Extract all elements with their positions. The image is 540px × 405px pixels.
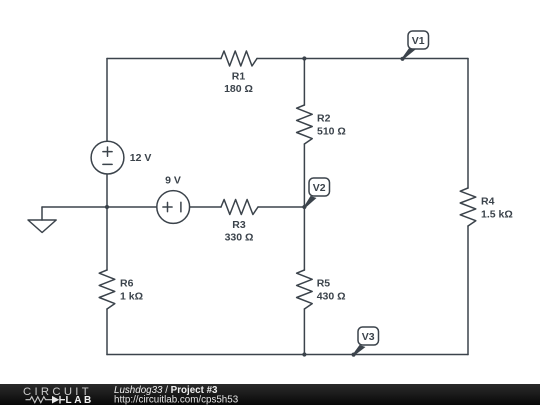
wire ground branch horizontal <box>42 206 107 208</box>
wire top (node V1 net) <box>107 58 221 60</box>
svg-text:R4: R4 <box>481 196 495 208</box>
junction dot bottom (R5 branch) <box>302 352 306 356</box>
svg-text:510 Ω: 510 Ω <box>317 125 346 137</box>
node V3 flag tail <box>353 345 366 356</box>
wire R5 to bottom wire <box>303 309 305 355</box>
wire middle vertical top to R2 <box>303 59 305 106</box>
resistor R3 body <box>221 200 258 215</box>
svg-text:R1: R1 <box>232 71 246 83</box>
svg-text:1 kΩ: 1 kΩ <box>120 290 143 302</box>
voltage source 9V circle <box>157 191 190 224</box>
wire left vertical above 12V source <box>106 59 108 142</box>
svg-text:9 V: 9 V <box>165 175 181 187</box>
node V1 flag tail <box>402 48 416 60</box>
wire left vertical below 12V source <box>106 174 108 207</box>
svg-text:12 V: 12 V <box>130 152 152 164</box>
logo resistor zigzag <box>26 397 53 403</box>
wire R4 to bottom wire <box>467 226 469 355</box>
resistor R1 body <box>221 51 257 66</box>
node V3 flag box <box>358 327 379 345</box>
resistor R6 body <box>99 270 115 309</box>
svg-text:V2: V2 <box>313 182 326 194</box>
junction dot node V2 <box>302 205 306 209</box>
wire R6 to bottom wire <box>106 309 108 355</box>
svg-text:180 Ω: 180 Ω <box>224 83 253 95</box>
wire R2 to node V2 <box>303 144 305 207</box>
junction dot top (R2 branch) <box>302 56 306 60</box>
node V2 flag box <box>309 178 330 196</box>
wire ground branch vertical <box>41 207 43 220</box>
wire R3 to node V2 <box>258 206 304 208</box>
node V2 flag tail <box>304 196 317 208</box>
wire node V2 to R5 <box>303 207 305 270</box>
wire top right of R1 <box>257 58 468 60</box>
12V minus sign <box>103 163 112 165</box>
svg-text:http://circuitlab.com/cps5h53: http://circuitlab.com/cps5h53 <box>114 395 239 405</box>
svg-text:430 Ω: 430 Ω <box>317 290 346 302</box>
12V plus sign <box>103 147 112 156</box>
svg-text:330 Ω: 330 Ω <box>225 231 254 243</box>
wire middle horizontal to 9V source <box>107 206 157 208</box>
wire left vertical below junction to R6 <box>106 207 108 270</box>
resistor R2 body <box>297 105 313 144</box>
junction dot left middle <box>105 205 109 209</box>
wire bottom (node V3 net) <box>107 354 468 356</box>
wire 9V source to R3 <box>190 206 221 208</box>
9V minus sign (rotated bar) <box>180 202 182 212</box>
svg-text:LAB: LAB <box>66 395 94 405</box>
logo diode symbol <box>52 396 59 404</box>
node V1 flag box <box>408 31 429 49</box>
svg-text:V1: V1 <box>412 35 425 47</box>
svg-text:R5: R5 <box>317 278 331 290</box>
ground symbol <box>28 220 56 233</box>
9V plus sign <box>163 202 172 211</box>
node V1 probe dot <box>400 57 404 61</box>
svg-text:R6: R6 <box>120 278 134 290</box>
node V3 probe dot <box>352 353 356 357</box>
resistor R5 body <box>297 270 313 309</box>
svg-text:V3: V3 <box>362 331 375 343</box>
svg-text:R3: R3 <box>232 219 246 231</box>
svg-text:1.5 kΩ: 1.5 kΩ <box>481 208 513 220</box>
voltage source 12V circle <box>91 141 124 174</box>
resistor R4 body <box>460 188 476 226</box>
svg-text:R2: R2 <box>317 113 331 125</box>
wire right vertical above R4 <box>467 59 469 189</box>
